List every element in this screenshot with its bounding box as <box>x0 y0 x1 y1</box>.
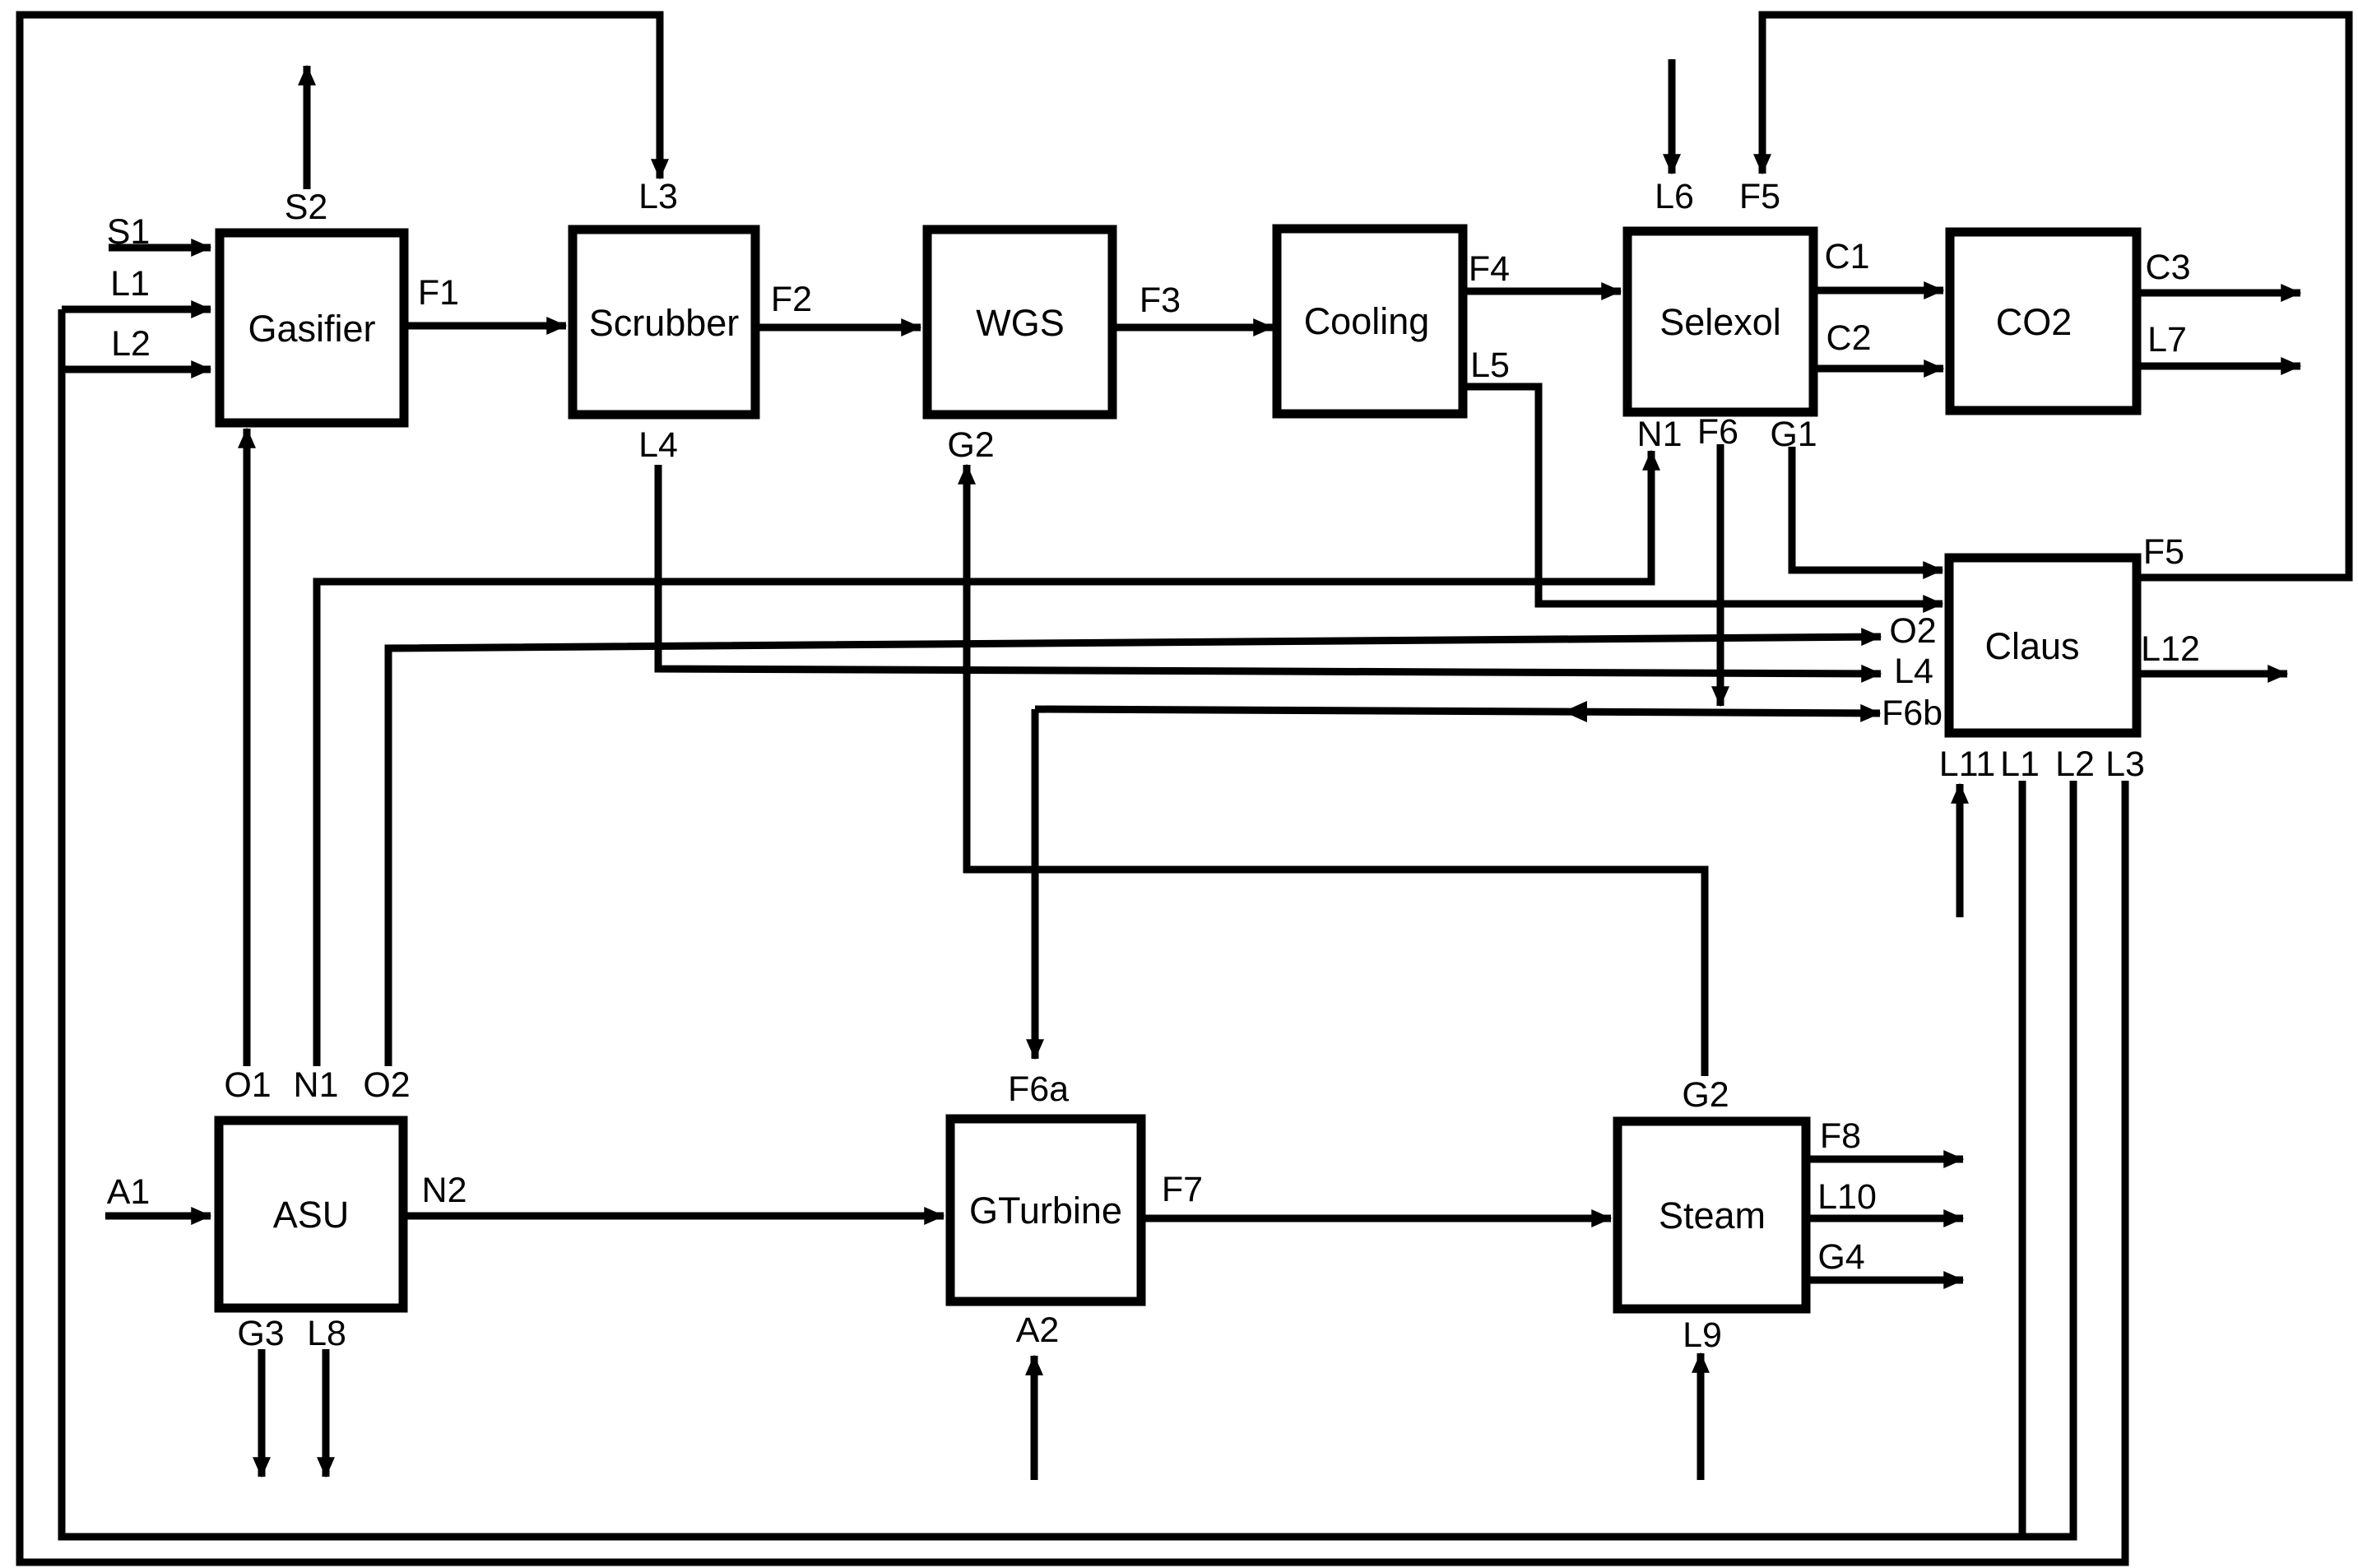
svg-text:A2: A2 <box>1016 1311 1060 1350</box>
svg-text:F5: F5 <box>2143 532 2184 572</box>
svg-text:F1: F1 <box>418 273 459 313</box>
svg-text:L1: L1 <box>2000 745 2040 784</box>
svg-text:L1: L1 <box>110 264 150 304</box>
svg-text:S2: S2 <box>285 188 328 227</box>
svg-text:F2: F2 <box>771 280 812 319</box>
svg-text:G2: G2 <box>947 425 994 465</box>
svg-text:G4: G4 <box>1817 1237 1864 1277</box>
svg-text:C1: C1 <box>1825 237 1870 276</box>
svg-text:L7: L7 <box>2147 320 2187 360</box>
svg-text:L4: L4 <box>1894 652 1933 691</box>
svg-text:L11: L11 <box>1939 745 1996 784</box>
svg-text:O2: O2 <box>1889 611 1936 651</box>
svg-text:Claus: Claus <box>1984 625 2079 667</box>
svg-text:L12: L12 <box>2141 629 2200 669</box>
svg-text:G3: G3 <box>237 1314 284 1353</box>
svg-text:O1: O1 <box>224 1065 271 1105</box>
svg-text:L3: L3 <box>638 177 678 216</box>
svg-text:Scrubber: Scrubber <box>589 302 740 344</box>
svg-text:F7: F7 <box>1162 1170 1203 1209</box>
svg-text:C3: C3 <box>2146 248 2191 287</box>
svg-text:C2: C2 <box>1827 318 1872 358</box>
svg-text:O2: O2 <box>363 1065 410 1105</box>
svg-text:N2: N2 <box>422 1171 467 1210</box>
svg-text:Steam: Steam <box>1659 1195 1766 1236</box>
svg-text:Cooling: Cooling <box>1304 300 1430 342</box>
svg-text:L2: L2 <box>2055 745 2095 784</box>
svg-text:F4: F4 <box>1469 249 1510 289</box>
svg-text:A1: A1 <box>107 1172 151 1212</box>
svg-text:L8: L8 <box>307 1314 346 1353</box>
svg-text:F6a: F6a <box>1008 1069 1069 1109</box>
svg-text:WGS: WGS <box>976 302 1065 344</box>
svg-text:G1: G1 <box>1770 415 1817 454</box>
svg-text:CO2: CO2 <box>1996 301 2073 343</box>
svg-text:F5: F5 <box>1739 177 1780 216</box>
svg-text:L10: L10 <box>1817 1177 1877 1217</box>
svg-text:S1: S1 <box>107 212 151 252</box>
svg-text:Selexol: Selexol <box>1659 301 1781 343</box>
svg-text:F8: F8 <box>1820 1116 1861 1156</box>
svg-text:ASU: ASU <box>273 1194 350 1236</box>
svg-text:F6b: F6b <box>1882 694 1943 733</box>
svg-text:L6: L6 <box>1655 177 1694 216</box>
svg-text:L5: L5 <box>1470 346 1510 385</box>
svg-text:L4: L4 <box>638 425 678 465</box>
svg-text:F6: F6 <box>1697 412 1738 452</box>
svg-text:GTurbine: GTurbine <box>969 1190 1122 1232</box>
svg-text:G2: G2 <box>1682 1075 1729 1115</box>
svg-text:N1: N1 <box>1637 415 1683 454</box>
svg-text:Gasifier: Gasifier <box>248 308 375 350</box>
svg-text:L3: L3 <box>2105 745 2145 784</box>
svg-text:F3: F3 <box>1140 281 1181 320</box>
svg-text:N1: N1 <box>294 1065 339 1105</box>
svg-text:L9: L9 <box>1683 1315 1722 1355</box>
svg-text:L2: L2 <box>111 324 151 364</box>
